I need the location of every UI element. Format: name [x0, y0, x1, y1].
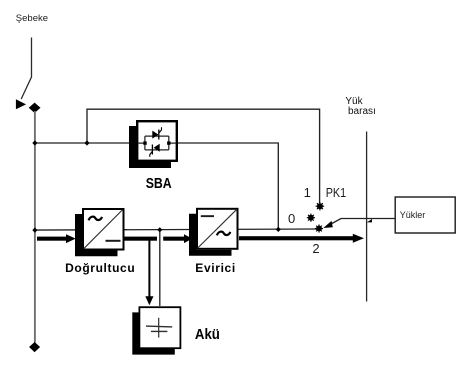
thick bar rectifier output	[124, 237, 157, 241]
SBA terminal stubs	[139, 142, 176, 144]
contact blob 2	[315, 224, 323, 232]
box battery	[139, 307, 180, 348]
junction dot (278,229.5)	[276, 227, 281, 232]
svg-text:1: 1	[304, 185, 311, 200]
junction dot (160,230)	[157, 227, 162, 232]
node diamond top (mains contact)	[29, 103, 41, 113]
wire Şebeke lead (switch blade)	[21, 38, 31, 100]
inverter shadow	[189, 214, 232, 256]
wire thin output bus y=230	[35, 229, 317, 230]
thick output bus with arrow	[239, 234, 364, 243]
box SBA	[137, 121, 177, 161]
rectifier DC bar	[106, 240, 121, 242]
svg-text:Şebeke: Şebeke	[16, 13, 48, 24]
junction dot (35,230)	[32, 228, 37, 233]
svg-text:Yükler: Yükler	[400, 210, 426, 220]
wire load busbar vertical	[366, 132, 368, 302]
wire Yükler feed	[328, 219, 395, 226]
thick power arrow into inverter	[163, 234, 192, 243]
label Yük barası	[345, 96, 375, 117]
inverter diagonal	[198, 209, 237, 248]
thyristor bottom (left-pointing)	[150, 144, 160, 157]
rectifier shadow	[75, 214, 118, 256]
box Yükler	[395, 197, 455, 233]
svg-text:Doğrultucu: Doğrultucu	[65, 261, 135, 275]
thick power arrow into rectifier	[37, 234, 76, 243]
svg-text:Evirici: Evirici	[195, 261, 236, 275]
arrowhead Şebeke switch	[16, 99, 26, 109]
arrowhead Yükler to contact 2	[323, 221, 333, 228]
arrowhead at busbar crossing	[367, 219, 372, 222]
contact blob 1	[316, 202, 325, 210]
junction dot (87,143)	[84, 140, 89, 145]
svg-text:2: 2	[312, 241, 319, 256]
svg-text:barası: barası	[348, 106, 376, 117]
wire left vertical bus	[34, 111, 36, 343]
rectifier diagonal	[84, 210, 123, 249]
SBA left terminal dot	[143, 141, 146, 144]
inverter DC bar	[201, 215, 214, 217]
SBA shadow	[129, 126, 171, 168]
wire SBA output to bus	[178, 143, 278, 230]
junction dot (35,143)	[32, 140, 37, 145]
box rectifier	[83, 209, 124, 250]
inverter AC tilde	[217, 232, 231, 236]
SBA right terminal dot	[167, 141, 170, 144]
thyristor top (right-pointing)	[152, 127, 161, 139]
box inverter	[197, 209, 238, 249]
svg-text:0: 0	[288, 211, 295, 226]
battery charge arrow	[145, 241, 153, 306]
svg-text:Akü: Akü	[195, 327, 220, 343]
wire top bypass feed	[87, 109, 320, 203]
rectifier AC tilde	[89, 217, 103, 221]
svg-text:SBA: SBA	[146, 176, 172, 192]
svg-text:PK1: PK1	[326, 185, 347, 200]
wire battery thin lead x=160	[159, 230, 161, 306]
SBA thyristor loop	[145, 136, 169, 150]
battery symbol	[146, 318, 172, 338]
wire SBA input horizontal y=143	[35, 142, 136, 144]
contact blob 0	[307, 214, 315, 222]
battery shadow	[132, 312, 175, 354]
node diamond bottom	[29, 342, 40, 352]
